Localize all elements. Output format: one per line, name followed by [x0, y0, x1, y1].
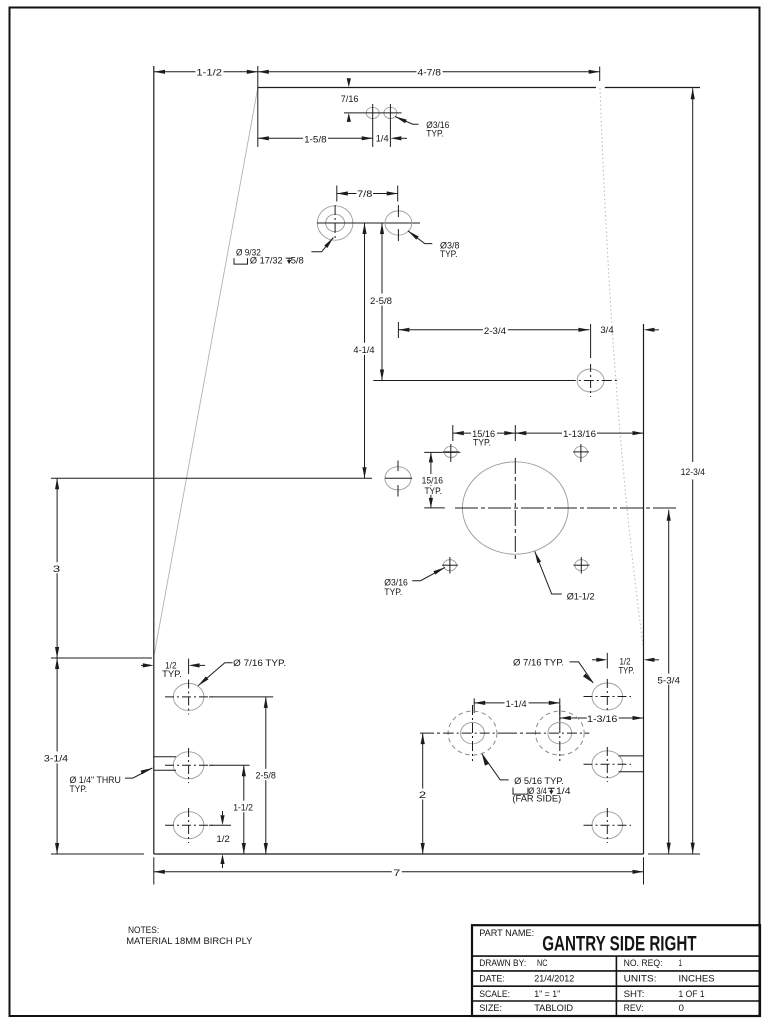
leader for label diameter 3/16 TYP (top holes)	[395, 117, 407, 124]
hole diameter 3/16 upper-right of big circle	[574, 446, 587, 457]
dimension 1-1/2 (top left)	[154, 71, 258, 73]
svg-text:TYP.: TYP.	[384, 587, 402, 598]
svg-text:15/16: 15/16	[422, 476, 443, 487]
extension line from hole B to 1-1/2 dimension	[209, 764, 250, 766]
svg-text:1" = 1": 1" = 1"	[534, 989, 560, 1000]
title block row lines	[472, 955, 760, 957]
svg-text:1-1/4: 1-1/4	[506, 699, 527, 710]
centerline vertical counterbore hole	[334, 205, 336, 241]
hole diameter 3/16 lower-left of big circle	[443, 560, 456, 571]
dimension 1-13/16	[515, 431, 526, 435]
dimension 1/2 TYP (right hole column to edge)	[596, 658, 607, 662]
hole diameter 3/8 center-left (4-1/4 location)	[385, 467, 411, 490]
dimension 1-1/2 vertical (bottom left)	[243, 765, 245, 854]
svg-text:TYP.: TYP.	[426, 128, 444, 139]
dimension 4-1/4 vertical	[364, 223, 366, 478]
svg-text:1-1/2: 1-1/2	[233, 802, 253, 813]
svg-text:3/4: 3/4	[600, 325, 613, 336]
svg-text:TYP.: TYP.	[473, 437, 491, 448]
dimension 2-3/4	[398, 329, 589, 331]
reference line y=478 from left dimension to hole	[51, 477, 372, 479]
leader for label diameter 3/8 TYP	[408, 231, 419, 240]
dimension 7/8	[337, 193, 398, 195]
dimension 2 vertical (far-side holes to bottom)	[422, 733, 424, 854]
svg-text:REV:: REV:	[624, 1003, 644, 1014]
svg-text:3: 3	[53, 564, 60, 575]
leader for label diameter 5/16 TYP far side	[482, 754, 489, 766]
svg-text:Ø 17/32: Ø 17/32	[250, 255, 283, 266]
svg-text:0: 0	[679, 1003, 685, 1014]
dimension 12-3/4 overall height	[692, 88, 694, 853]
leader for label diameter 7/16 TYP left	[198, 676, 208, 685]
svg-text:Ø 7/16 TYP.: Ø 7/16 TYP.	[513, 658, 564, 669]
centerline horizontal through counterbore holes	[317, 222, 420, 224]
svg-text:MATERIAL 18MM BIRCH PLY: MATERIAL 18MM BIRCH PLY	[126, 936, 253, 947]
svg-text:SHT:: SHT:	[624, 989, 645, 1000]
svg-text:1: 1	[679, 958, 683, 969]
svg-text:PART NAME:: PART NAME:	[479, 928, 534, 939]
svg-text:2: 2	[419, 790, 426, 801]
dimension 1/2 vertical (bottom left)	[220, 815, 224, 825]
leader for label diameter 3/16 TYP (big circle corner holes)	[433, 567, 445, 574]
svg-text:(FAR SIDE): (FAR SIDE)	[512, 794, 561, 805]
svg-text:1-5/8: 1-5/8	[304, 135, 327, 146]
dimension 1-5/8	[258, 137, 373, 139]
dimension 3-1/4 vertical left	[56, 658, 58, 854]
extension line from hole A to 2-5/8 dimension	[209, 696, 273, 698]
hole diameter 3/8 right (2-3/4 / 3/4 location)	[577, 369, 604, 392]
extension line from 3/8 hole below 2-3/4 dimension	[590, 324, 592, 358]
svg-text:UNITS:: UNITS:	[624, 973, 657, 984]
dimension 7 overall width	[154, 871, 644, 873]
svg-text:2-3/4: 2-3/4	[484, 326, 506, 337]
dimension 15/16 TYP vertical	[430, 452, 432, 508]
svg-text:5/8: 5/8	[291, 255, 304, 266]
hole E diameter 7/16 right column middle	[592, 751, 623, 778]
svg-text:NC: NC	[537, 958, 547, 969]
centerline vertical of big hole	[514, 458, 516, 560]
svg-text:2-5/8: 2-5/8	[256, 770, 276, 781]
extension line from hole C to 1/2 dimension	[209, 824, 231, 826]
svg-text:DATE:: DATE:	[479, 973, 505, 984]
leader for label diameter 7/16 TYP right	[583, 673, 593, 683]
dimension 5-3/4	[668, 510, 670, 854]
svg-text:1/4: 1/4	[376, 134, 389, 145]
dimension 1-1/4 (far-side holes)	[474, 702, 560, 704]
dimension 15/16 TYP horizontal	[453, 432, 644, 434]
svg-text:INCHES: INCHES	[679, 973, 715, 984]
svg-text:Ø 7/16 TYP.: Ø 7/16 TYP.	[233, 658, 286, 669]
bottom extension line left toward 3-1/4 dimension	[51, 853, 144, 855]
svg-text:TYP.: TYP.	[162, 669, 182, 680]
part bottom edge	[154, 853, 644, 855]
centerline through top holes	[344, 112, 361, 114]
svg-text:TYP.: TYP.	[424, 486, 442, 497]
svg-text:2-5/8: 2-5/8	[370, 296, 392, 307]
centerline between far-side holes extending left to 2 dimension	[420, 732, 444, 734]
part left sloped edge (faint)	[154, 88, 258, 657]
side hole 1/4 through left edge (two parallel lines)	[154, 756, 176, 758]
svg-text:SCALE:: SCALE:	[479, 989, 510, 1000]
svg-text:TYP.: TYP.	[440, 249, 458, 260]
svg-text:7: 7	[393, 868, 400, 879]
dimension 3 vertical left	[56, 478, 58, 658]
leader for label diameter 1-1/2	[535, 551, 541, 563]
svg-text:TABLOID: TABLOID	[534, 1003, 573, 1014]
leader for label diameter 1/4 THRU TYP	[141, 768, 153, 774]
svg-text:1-3/16: 1-3/16	[587, 714, 617, 725]
extension line from right top hole	[389, 104, 391, 147]
dimension 4-7/8 (top)	[258, 71, 600, 73]
svg-text:5-3/4: 5-3/4	[657, 675, 680, 686]
hole B diameter 7/16 left column middle	[173, 752, 204, 779]
hole C diameter 7/16 left column bottom	[173, 812, 204, 839]
part left vertical edge and extension line up to 1-1/2 dimension	[153, 66, 155, 854]
svg-text:Ø1-1/2: Ø1-1/2	[567, 591, 595, 602]
bottom extension line right toward 12-3/4 dimension	[648, 853, 700, 855]
part top edge	[258, 87, 596, 89]
hole diameter 3/16 upper-left of big circle	[444, 446, 457, 457]
centerline horizontal of right 3/8 hole with long extension left	[373, 380, 566, 382]
dimension 1/4	[375, 133, 389, 143]
hole F diameter 7/16 right column bottom	[592, 812, 623, 839]
extension line from left top hole	[372, 104, 374, 147]
svg-text:NOTES:: NOTES:	[128, 925, 159, 936]
svg-text:7/16: 7/16	[341, 94, 359, 105]
title block column divider	[615, 956, 617, 1016]
svg-text:4-1/4: 4-1/4	[353, 345, 374, 356]
far-side hole G diameter 5/16 with 3/4 counterbore far side	[461, 722, 485, 743]
svg-text:GANTRY SIDE RIGHT: GANTRY SIDE RIGHT	[542, 933, 697, 956]
part right sloped edge (faint dotted)	[600, 88, 644, 652]
dimension 2-5/8 vertical (upper)	[381, 223, 383, 381]
hole diameter 3/8 at top	[385, 211, 412, 235]
dimension 7/16 (top holes from top edge)	[347, 78, 351, 87]
title block outer frame	[472, 925, 760, 1016]
big hole diameter 1-1/2	[462, 462, 568, 554]
far-side hole H diameter 5/16 with 3/4 counterbore far side	[548, 722, 572, 743]
svg-text:1/2: 1/2	[216, 834, 230, 845]
hole A diameter 7/16 left column top	[173, 683, 204, 710]
centerline vertical of right 3/8 hole	[590, 364, 592, 397]
svg-text:NO. REQ:: NO. REQ:	[624, 958, 663, 969]
hole diameter 3/16 lower-right of big circle	[575, 560, 588, 571]
part right vertical edge and extension line up to 3/4 dimension	[643, 324, 645, 854]
dimension 1/2 TYP (left edge to hole column)	[143, 663, 154, 667]
svg-text:21/4/2012: 21/4/2012	[534, 973, 574, 984]
extension tick at right hole column top	[606, 653, 608, 669]
leader for label 9/32 and 17/32 counterbore	[324, 238, 333, 249]
svg-text:SIZE:: SIZE:	[479, 1003, 502, 1014]
svg-text:3-1/4: 3-1/4	[44, 753, 68, 764]
side hole 1/4 through right edge (two parallel lines)	[619, 755, 644, 757]
svg-text:7/8: 7/8	[357, 189, 372, 200]
centerline vertical of center-left hole	[397, 461, 399, 472]
svg-text:4-7/8: 4-7/8	[418, 67, 441, 78]
extension line at top-left part corner	[257, 66, 259, 147]
part top edge extension line to right	[605, 87, 700, 89]
extension tick at top-right part corner for 4-7/8	[599, 67, 601, 82]
hole D diameter 7/16 right column top	[592, 683, 623, 710]
svg-text:TYP.: TYP.	[619, 665, 635, 676]
svg-text:12-3/4: 12-3/4	[681, 467, 705, 478]
holes 2x diameter 3/16 at top	[366, 107, 379, 118]
extension line y=658 at top of left edge	[51, 657, 152, 659]
dimension 1-3/16	[560, 717, 644, 719]
svg-text:DRAWN BY:: DRAWN BY:	[479, 958, 526, 969]
svg-text:1 OF 1: 1 OF 1	[679, 989, 705, 1000]
centerline vertical 3/8 hole	[397, 205, 399, 217]
extension tick at hole column top	[188, 659, 190, 674]
svg-text:1-1/2: 1-1/2	[196, 67, 222, 78]
hole counterbore diameter 9/32 with 17/32 cbore	[317, 206, 353, 240]
svg-text:1-13/16: 1-13/16	[563, 429, 596, 440]
centerline horizontal through center-left hole	[385, 477, 412, 479]
centerline horizontal of big hole extending to 5-3/4 dimension	[455, 507, 676, 509]
dimension 2-5/8 vertical (bottom left)	[265, 697, 267, 854]
svg-text:TYP.: TYP.	[70, 784, 88, 795]
